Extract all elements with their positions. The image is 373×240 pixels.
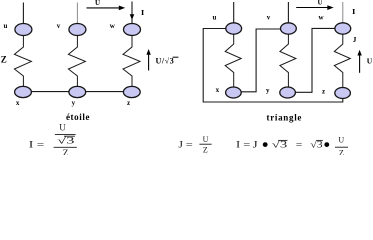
wire: y to w link	[296, 28, 335, 92]
svg-text:U: U	[338, 135, 344, 144]
svg-text:I: I	[236, 140, 240, 150]
node x (triangle)	[226, 87, 242, 98]
resistor Z phase v	[68, 36, 85, 87]
resistor phase v (triangle)	[280, 34, 296, 87]
resistor phase u (triangle)	[225, 34, 241, 87]
node w (étoile)	[124, 24, 141, 36]
wire: x to v link	[241, 29, 280, 92]
arrow: line voltage U (étoile top)	[87, 7, 120, 9]
svg-text:J: J	[353, 35, 357, 44]
wire: phase w top lead	[131, 2, 133, 25]
wire: phase v top lead (triangle)	[287, 2, 289, 23]
arrow: phase voltage U (triangle right)	[359, 54, 361, 73]
wire: u feed rail u-left-bottom-z	[203, 29, 343, 103]
svg-text:y: y	[72, 99, 76, 107]
svg-text:U: U	[203, 135, 209, 144]
svg-text:y: y	[266, 86, 270, 94]
node u (triangle)	[226, 23, 242, 34]
node y (étoile)	[69, 86, 86, 97]
node z (étoile)	[123, 86, 140, 97]
resistor Z phase u	[14, 36, 31, 87]
arrow: phase voltage U/sqrt3	[148, 53, 150, 71]
svg-text:=: =	[186, 141, 193, 151]
svg-text:U: U	[317, 0, 322, 7]
node v (triangle)	[281, 23, 297, 34]
svg-text:=: =	[37, 141, 44, 151]
node x (étoile)	[15, 86, 32, 97]
node z (triangle)	[335, 88, 351, 99]
svg-text:√3: √3	[57, 135, 75, 145]
svg-text:I: I	[352, 7, 355, 16]
wire: phase v top lead	[76, 3, 78, 25]
svg-text:Z: Z	[1, 55, 7, 65]
svg-text:v: v	[267, 13, 271, 21]
svg-text:x: x	[16, 99, 20, 107]
svg-text:I: I	[29, 141, 34, 151]
node v (étoile)	[69, 24, 86, 36]
svg-text:U/√3: U/√3	[156, 56, 175, 65]
svg-text:J: J	[178, 141, 183, 151]
svg-text:v: v	[57, 22, 61, 30]
svg-text:triangle: triangle	[267, 112, 303, 122]
wire: phase u top lead (triangle)	[233, 2, 235, 23]
resistor Z phase w	[123, 36, 140, 87]
svg-text:U: U	[95, 0, 100, 7]
svg-text:I: I	[141, 8, 144, 17]
svg-text:x: x	[216, 86, 220, 94]
node y (triangle)	[280, 87, 296, 98]
svg-text:z: z	[322, 88, 325, 96]
svg-text:√3: √3	[310, 140, 323, 151]
svg-text:U: U	[59, 123, 66, 133]
svg-text:U: U	[367, 57, 373, 66]
svg-text:étoile: étoile	[66, 112, 90, 122]
resistor phase w (triangle)	[334, 34, 350, 87]
arrow: line voltage U (triangle top)	[296, 7, 328, 9]
svg-text:Z: Z	[339, 148, 344, 155]
svg-text:z: z	[127, 99, 130, 107]
svg-text:=: =	[243, 140, 250, 150]
svg-text:=: =	[296, 140, 303, 150]
node w (triangle)	[335, 23, 351, 34]
wire: neutral bus x-y-z	[23, 91, 132, 93]
svg-text:u: u	[213, 13, 217, 21]
svg-text:Z: Z	[203, 146, 208, 155]
wire: phase w top lead (triangle)	[342, 2, 344, 23]
svg-text:J: J	[253, 140, 258, 150]
svg-text:√3: √3	[272, 140, 288, 151]
svg-text:Z: Z	[63, 149, 69, 155]
arrow: line current I into w	[130, 14, 135, 19]
wire: phase u top lead	[22, 3, 24, 25]
node u (étoile)	[15, 24, 32, 36]
svg-text:u: u	[4, 22, 8, 30]
